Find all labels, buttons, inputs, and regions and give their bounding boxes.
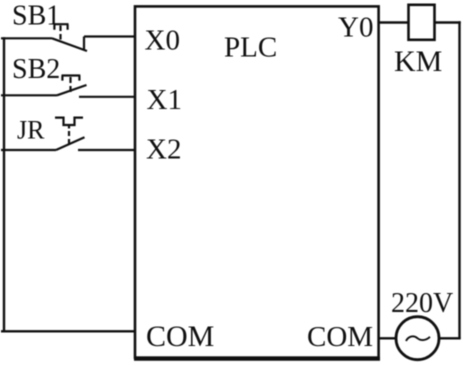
PLC box bottom edge (thick): [134, 357, 380, 361]
wire right rail to AC source: [439, 337, 461, 339]
thermal relay contact JR (NC): [1, 118, 136, 150]
contactor coil KM: [409, 5, 435, 40]
AC source 220V: [396, 317, 439, 360]
svg-text:COM: COM: [307, 321, 373, 353]
svg-text:KM: KM: [394, 45, 442, 78]
wire COM left to PLC: [1, 330, 136, 332]
wire AC source to PLC COM: [378, 337, 396, 339]
pushbutton SB1 (NC stop button): [1, 24, 136, 51]
wire KM to right rail: [435, 21, 461, 23]
svg-text:SB2: SB2: [12, 54, 60, 85]
svg-text:Y0: Y0: [338, 12, 373, 44]
svg-text:COM: COM: [146, 320, 214, 353]
svg-text:PLC: PLC: [224, 32, 277, 64]
svg-text:X0: X0: [145, 25, 180, 57]
svg-text:220V: 220V: [391, 288, 453, 319]
svg-text:JR: JR: [17, 116, 45, 145]
svg-text:SB1: SB1: [12, 1, 60, 32]
wire Y0 to KM coil: [378, 21, 409, 23]
svg-text:X1: X1: [147, 84, 182, 116]
pushbutton SB2 (NO start button): [1, 76, 136, 97]
right rail wire: [458, 21, 460, 338]
svg-text:X2: X2: [146, 134, 181, 166]
PLC box U1: [135, 6, 379, 357]
left common rail wire: [3, 37, 5, 331]
AC sine symbol: [406, 336, 430, 341]
